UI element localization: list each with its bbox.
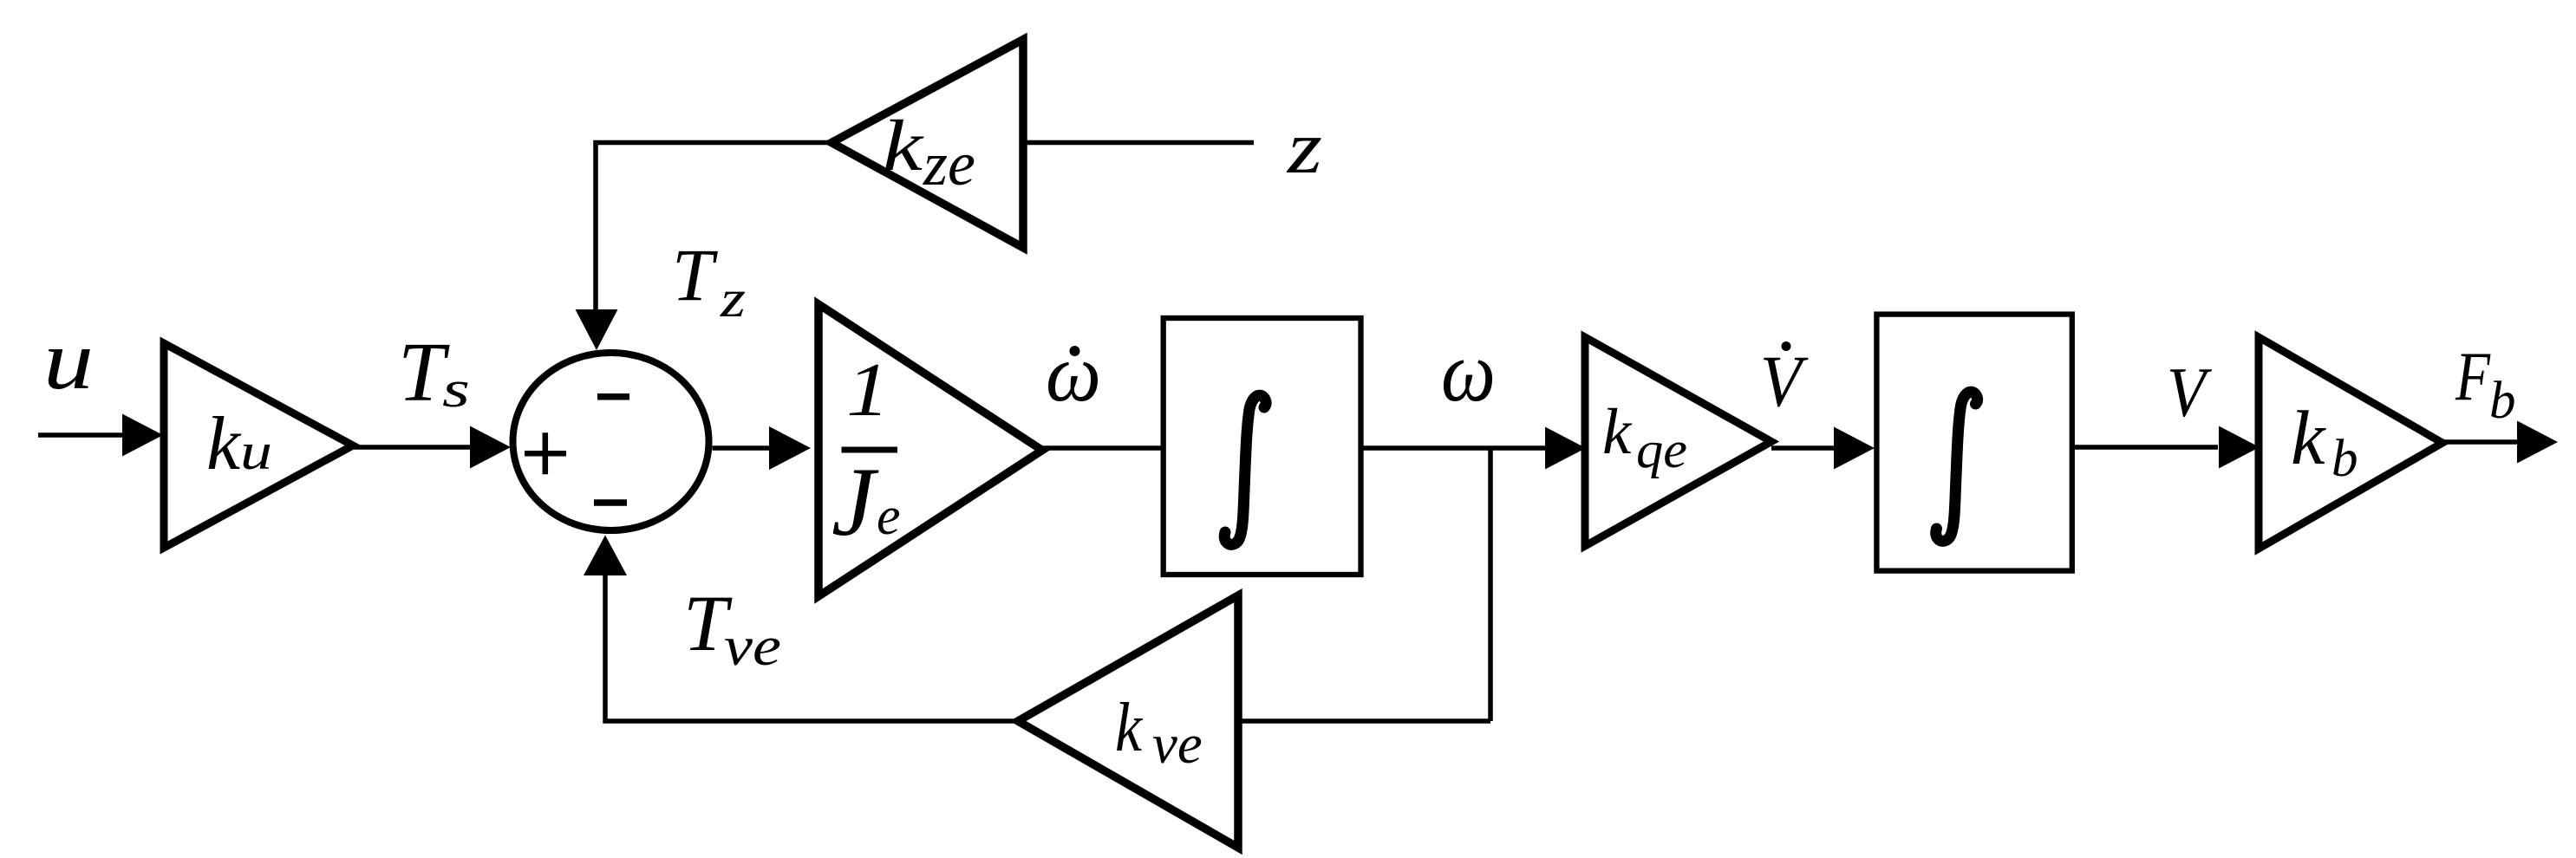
integral sign 2 [1936,392,1978,541]
wire k_ve output to sum bottom [605,575,1018,721]
gain block k_ve [1018,595,1238,848]
svg-text:z: z [1287,105,1322,189]
integrator block 1 [1164,318,1361,575]
sum bottom minus sign [594,499,627,506]
svg-text:qe: qe [1636,421,1687,478]
wire integrator 2 to k_b [2072,445,2218,450]
wire k_u to sum [353,445,471,450]
svg-text:F: F [2455,339,2491,415]
svg-text:ω: ω [1441,323,1496,419]
svg-text:z: z [720,270,746,328]
wire 1/Je to integrator 1 [1042,445,1163,451]
sum plus sign [525,451,566,457]
svg-text:s: s [442,361,470,418]
wire output F_b [2442,439,2518,445]
svg-text:ve: ve [1152,713,1203,776]
svg-text:T: T [672,233,718,316]
svg-text:ω: ω [1046,328,1101,419]
svg-text:k: k [206,402,242,486]
wire z input [1023,140,1254,146]
wire sum to 1/Je [713,445,771,451]
arrowhead into sum bottom [584,536,627,576]
wire feedback branch down [1488,448,1493,721]
svg-text:ze: ze [923,129,975,198]
wire k_qe to integrator 2 [1771,445,1834,451]
svg-text:V: V [2167,353,2212,432]
wire integrator 1 to k_qe [1361,445,1547,451]
svg-text:u: u [43,314,94,407]
wire u input [38,432,123,438]
arrowhead into integrator 2 [1834,427,1875,470]
sum top minus sign [597,393,629,400]
arrowhead into sum left [470,426,511,469]
svg-text:k: k [1115,690,1143,766]
gain block 1/Je [818,304,1042,596]
svg-text:1: 1 [846,348,890,432]
summing junction [513,353,709,530]
gain block k_b [2259,337,2442,549]
arrowhead into sum top [576,309,618,350]
svg-text:k: k [2291,396,2326,481]
gain block k_ze [831,40,1023,248]
wire k_ze output corner to sum top [596,143,831,311]
svg-text:b: b [2489,372,2516,430]
gain block k_u [164,343,353,548]
integral sign 1 [1224,395,1266,544]
arrowhead into k_b [2219,426,2260,469]
gain block k_qe [1585,337,1771,546]
svg-text:u: u [240,423,272,480]
arrowhead into 1/Je [769,426,811,470]
svg-text:V: V [1760,341,1809,422]
svg-text:b: b [2331,430,2358,488]
svg-text:ve: ve [724,615,781,678]
svg-text:e: e [877,487,901,546]
wire feedback horizontal right of k_ve [1238,718,1490,724]
svg-text:k: k [1602,396,1633,468]
arrowhead output [2517,421,2558,464]
svg-text:J: J [831,448,879,556]
svg-text:k: k [883,106,924,186]
label 1/Je fraction bar [842,447,898,453]
integrator block 2 [1876,315,2071,571]
arrowhead into k_qe [1545,427,1586,470]
arrowhead into k_u [122,414,163,457]
